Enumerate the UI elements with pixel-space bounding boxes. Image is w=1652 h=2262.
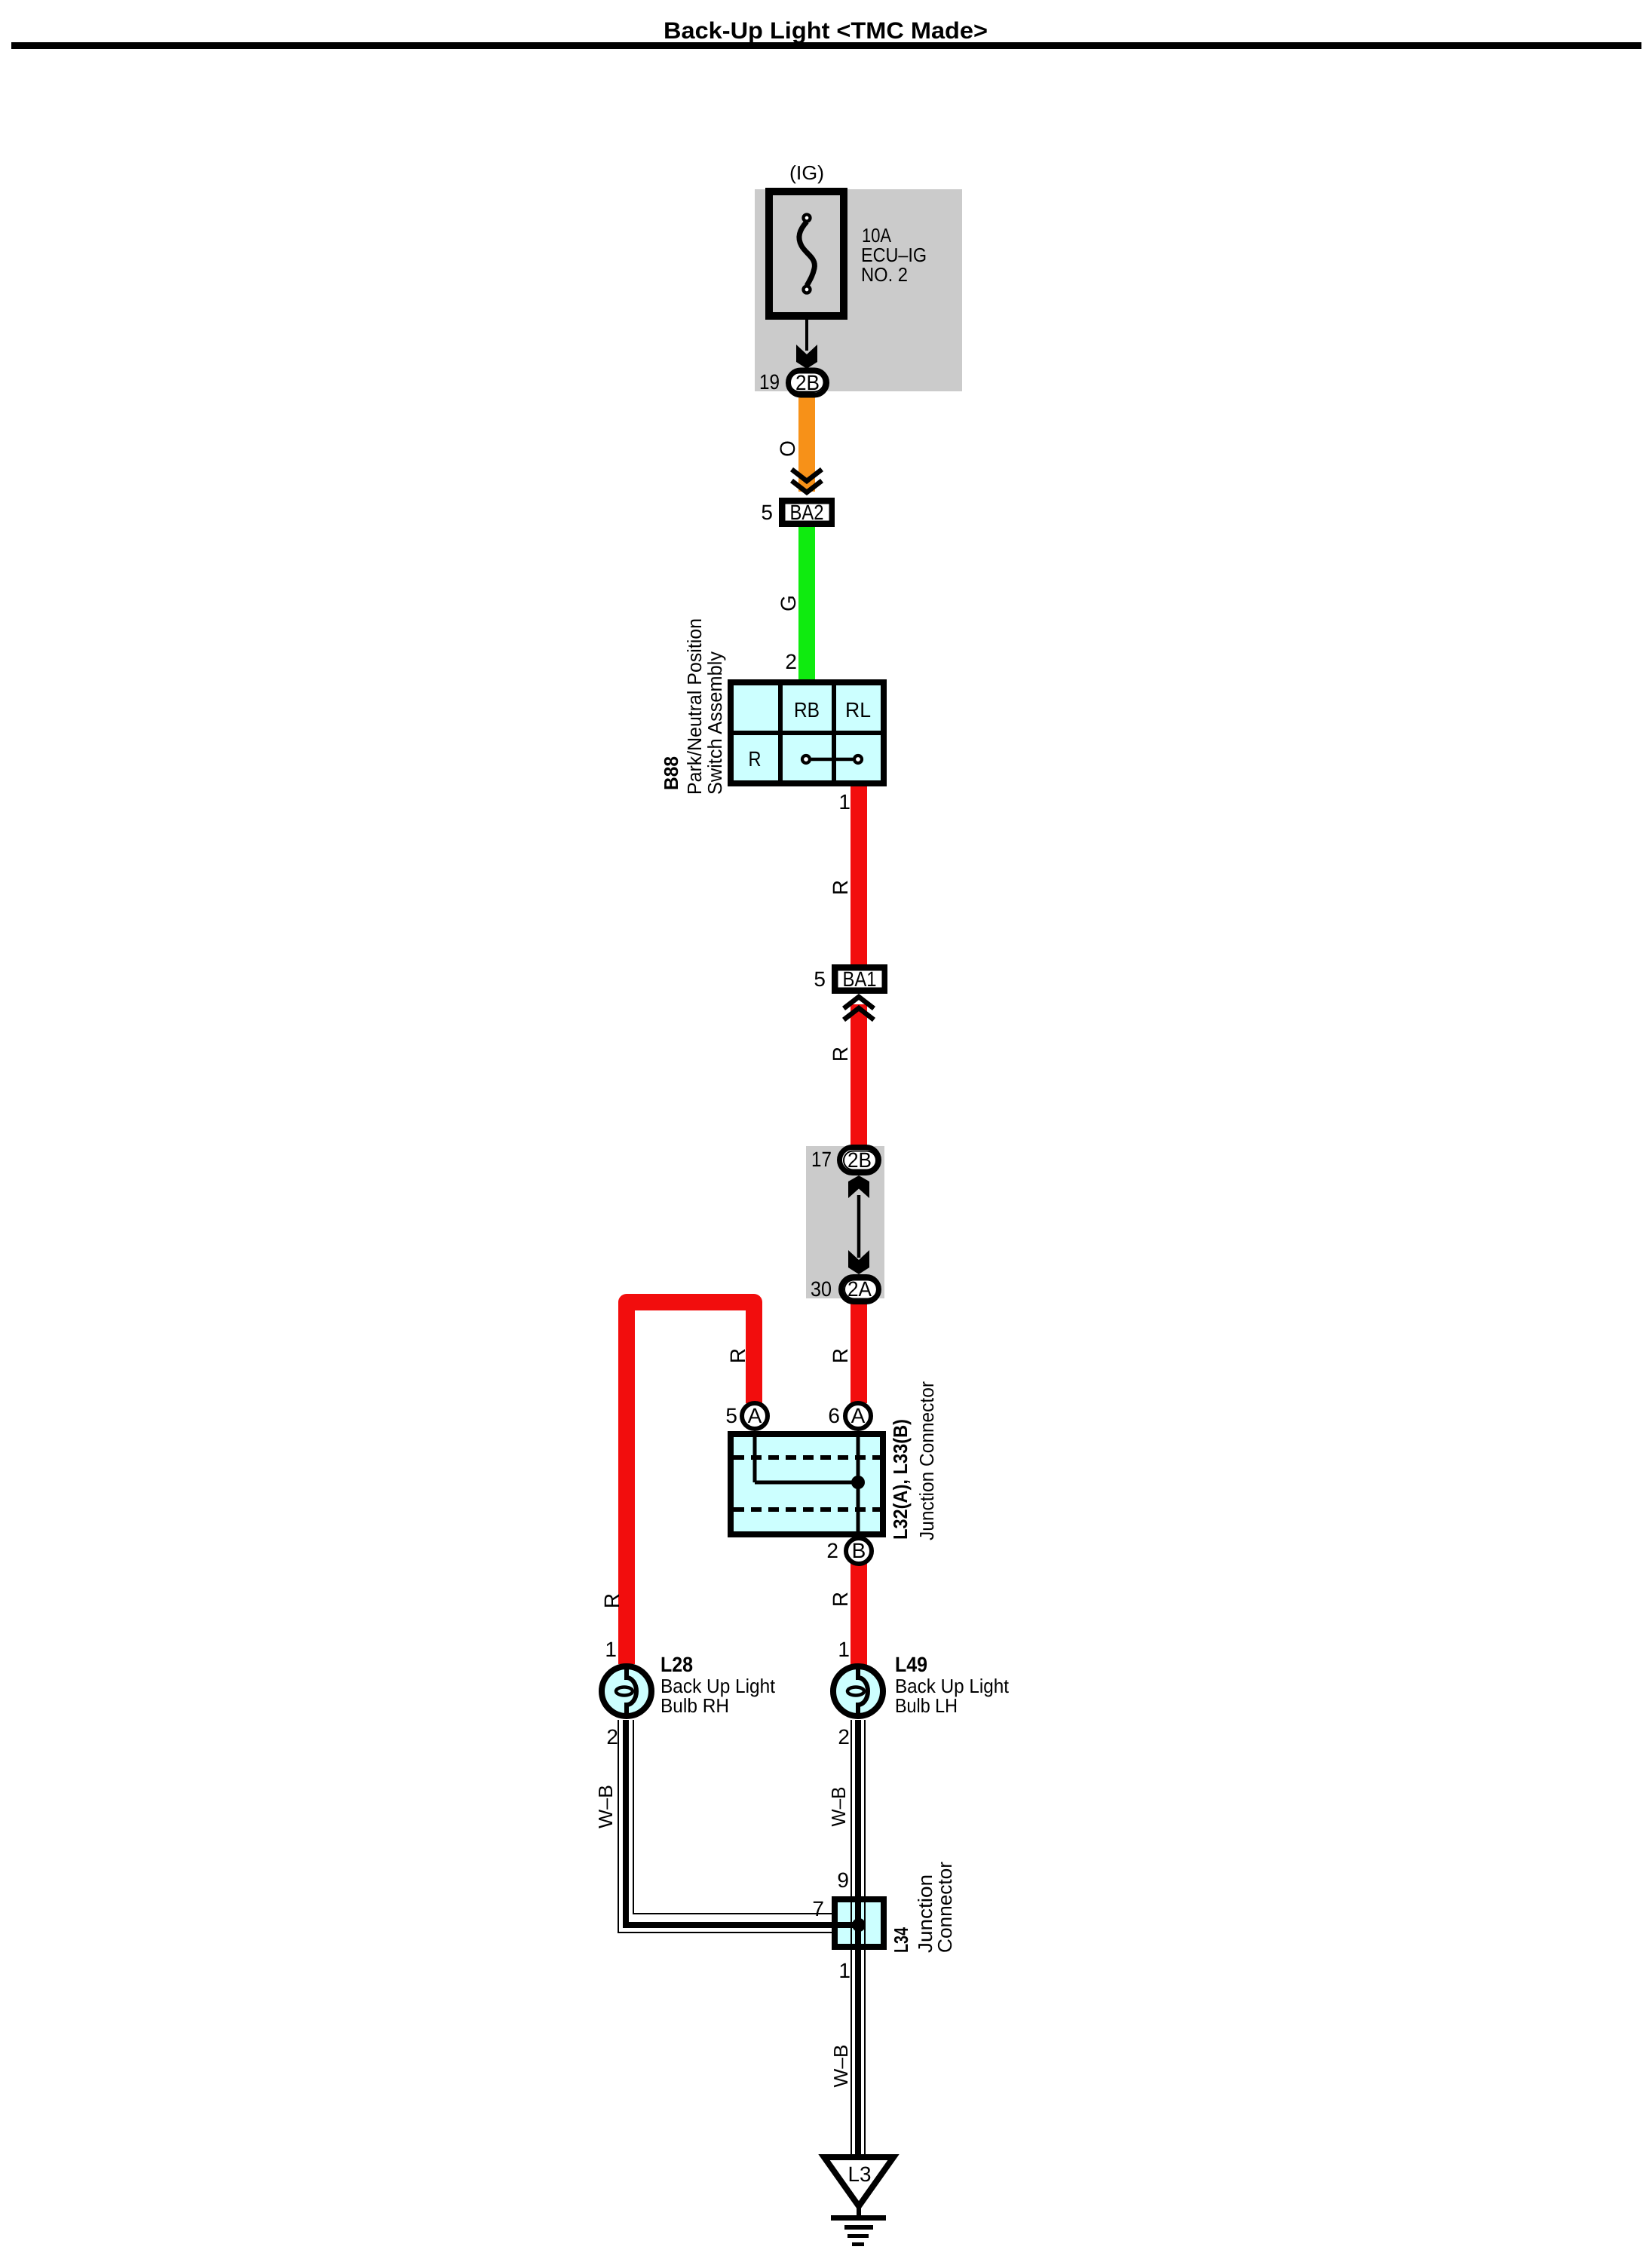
svg-text:2A: 2A	[847, 1277, 872, 1301]
svg-text:2: 2	[838, 1725, 850, 1749]
svg-text:(IG): (IG)	[789, 161, 824, 184]
svg-text:RB: RB	[794, 698, 820, 722]
svg-text:R: R	[829, 1348, 852, 1363]
svg-text:Junction Connector: Junction Connector	[915, 1381, 938, 1540]
svg-text:1: 1	[838, 790, 851, 814]
svg-text:L28: L28	[660, 1653, 693, 1676]
svg-text:5: 5	[761, 501, 773, 524]
svg-text:19: 19	[759, 370, 780, 394]
svg-text:L3: L3	[848, 2162, 872, 2186]
svg-text:2B: 2B	[847, 1148, 872, 1172]
svg-text:L34: L34	[890, 1927, 912, 1953]
svg-text:W–B: W–B	[827, 1787, 850, 1827]
svg-text:2B: 2B	[795, 371, 820, 394]
svg-text:O: O	[776, 440, 799, 457]
svg-text:BA2: BA2	[790, 501, 824, 524]
svg-text:17: 17	[811, 1148, 832, 1171]
svg-text:Park/Neutral Position: Park/Neutral Position	[683, 618, 706, 795]
svg-text:2: 2	[826, 1539, 838, 1562]
svg-text:L32(A), L33(B): L32(A), L33(B)	[889, 1419, 912, 1540]
svg-text:B: B	[852, 1539, 866, 1562]
svg-text:Bulb LH: Bulb LH	[895, 1694, 958, 1717]
svg-text:A: A	[748, 1404, 762, 1427]
svg-text:R: R	[829, 880, 852, 895]
svg-text:2: 2	[606, 1725, 618, 1749]
svg-text:A: A	[851, 1404, 866, 1427]
svg-text:1: 1	[605, 1638, 617, 1661]
svg-text:9: 9	[837, 1868, 849, 1892]
svg-text:RL: RL	[845, 698, 871, 722]
svg-text:G: G	[777, 595, 800, 611]
svg-text:R: R	[829, 1047, 852, 1062]
svg-text:6: 6	[828, 1404, 840, 1427]
svg-text:W–B: W–B	[829, 2045, 852, 2088]
svg-text:5: 5	[725, 1404, 737, 1427]
svg-text:R: R	[726, 1348, 749, 1363]
svg-text:Back-Up Light <TMC Made>: Back-Up Light <TMC Made>	[664, 17, 988, 44]
svg-text:Switch Assembly: Switch Assembly	[703, 651, 726, 795]
svg-text:W–B: W–B	[594, 1785, 617, 1828]
svg-text:2: 2	[785, 650, 797, 673]
svg-text:5: 5	[814, 967, 826, 991]
svg-text:R: R	[600, 1593, 624, 1608]
svg-text:R: R	[749, 747, 762, 771]
svg-text:R: R	[829, 1592, 852, 1607]
svg-text:7: 7	[812, 1897, 824, 1920]
svg-text:1: 1	[838, 1959, 851, 1982]
svg-text:1: 1	[838, 1638, 850, 1661]
svg-text:30: 30	[811, 1277, 832, 1301]
svg-text:L49: L49	[895, 1653, 927, 1676]
svg-text:B88: B88	[660, 756, 682, 790]
svg-text:Connector: Connector	[933, 1862, 956, 1953]
svg-text:Bulb RH: Bulb RH	[660, 1694, 729, 1717]
svg-text:NO. 2: NO. 2	[861, 263, 908, 286]
svg-text:BA1: BA1	[843, 967, 877, 991]
